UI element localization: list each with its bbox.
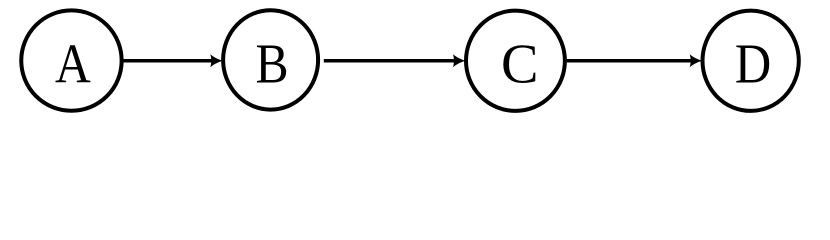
svg-text:D: D bbox=[735, 32, 771, 95]
svg-text:A: A bbox=[55, 33, 91, 95]
svg-text:C: C bbox=[501, 33, 538, 95]
svg-text:B: B bbox=[255, 33, 288, 95]
